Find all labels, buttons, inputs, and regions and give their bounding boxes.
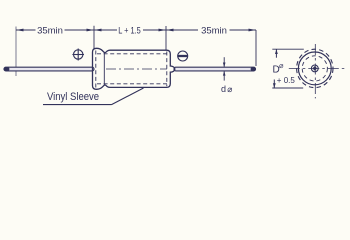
svg-text:L + 1.5: L + 1.5 (118, 25, 141, 36)
svg-text:⌀: ⌀ (279, 61, 284, 70)
svg-text:35min: 35min (201, 26, 227, 37)
svg-text:d: d (221, 84, 226, 94)
svg-text:+ 0.5: + 0.5 (277, 76, 296, 85)
svg-text:Vinyl Sleeve: Vinyl Sleeve (47, 91, 99, 103)
svg-text:35min: 35min (37, 26, 63, 37)
svg-text:⌀: ⌀ (227, 84, 233, 94)
